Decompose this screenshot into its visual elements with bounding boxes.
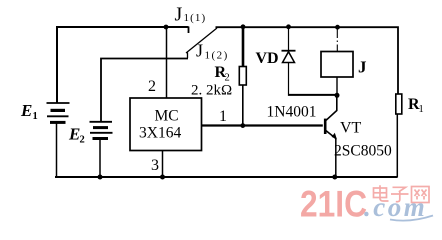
svg-text:21IC: 21IC (300, 184, 367, 225)
svg-text:VT: VT (340, 119, 362, 136)
svg-text:E: E (20, 101, 32, 120)
svg-text:J: J (196, 41, 203, 61)
svg-text:J: J (175, 4, 183, 26)
relay J coil box (321, 52, 353, 78)
wire R1 bottom lead / right rail (396, 114, 398, 178)
svg-text:1N4001: 1N4001 (267, 103, 317, 120)
svg-text:2: 2 (80, 135, 85, 146)
watermark chinese char zi (391, 187, 409, 201)
wire second rail (J1(2) to E2) (101, 59, 188, 122)
svg-text:3: 3 (151, 157, 159, 174)
battery E1 (47, 103, 70, 122)
wire VD top lead (288, 27, 290, 51)
node junction dot top rail / VD (286, 24, 291, 29)
wire IC pin3 vertical (162, 151, 164, 178)
wire R2 bottom lead (242, 85, 244, 126)
svg-text:1: 1 (33, 111, 38, 122)
node junction dot E2/bottom rail (98, 175, 103, 180)
node junction dot top rail / relay (335, 25, 340, 30)
svg-text:1: 1 (419, 104, 424, 115)
svg-text:2. 2kΩ: 2. 2kΩ (191, 83, 232, 99)
svg-text:2SC8050: 2SC8050 (334, 143, 392, 160)
svg-text:2: 2 (148, 78, 156, 95)
resistor R2 body (239, 67, 246, 86)
wire top rail right section (216, 27, 399, 94)
diode VD symbol (282, 51, 296, 63)
wire relay top lead (336, 27, 338, 51)
watermark chinese char dian (374, 185, 389, 201)
wire R2 top lead (242, 27, 245, 67)
wire switch fixed contact stub (188, 27, 190, 34)
wire E2 bottom lead (99, 139, 101, 178)
node junction dot relay/VD/collector (335, 93, 340, 98)
resistor R1 body (396, 94, 402, 114)
wire E1 bottom lead (56, 123, 58, 177)
transistor VT (2SC8050) (325, 95, 337, 177)
wire VD to relay/collector node (288, 94, 337, 96)
node junction dot R2/base wire (240, 123, 245, 128)
switch J1 blade (186, 28, 217, 58)
svg-text:1(2): 1(2) (205, 50, 229, 62)
node junction dot emitter/bottom rail (332, 175, 337, 180)
svg-text:MC: MC (155, 108, 179, 125)
wire IC pin1 / transistor base (202, 124, 323, 126)
node junction dot at top rail / IC pin2 wire (164, 25, 169, 30)
battery E2 (90, 122, 113, 139)
wire VD bottom lead (288, 63, 290, 95)
wire bottom rail (55, 176, 397, 178)
svg-text:3X164: 3X164 (139, 125, 181, 142)
svg-text:E: E (68, 125, 80, 144)
wire relay bottom lead (336, 77, 338, 95)
node junction dot pin3/bottom rail (160, 175, 165, 180)
svg-text:J: J (358, 58, 367, 77)
watermark chinese char wang (412, 187, 430, 203)
wire top rail left section (57, 27, 189, 103)
svg-text:VD: VD (256, 50, 279, 67)
svg-text:1: 1 (219, 108, 227, 125)
IC U1 MC 3X164 box (130, 98, 202, 151)
svg-text:.com: .com (364, 192, 427, 222)
node junction dot top rail / R2 (241, 24, 246, 29)
watermark .com underline swash (390, 216, 433, 221)
svg-text:1(1): 1(1) (184, 12, 207, 24)
wire IC pin2 vertical (166, 27, 168, 98)
